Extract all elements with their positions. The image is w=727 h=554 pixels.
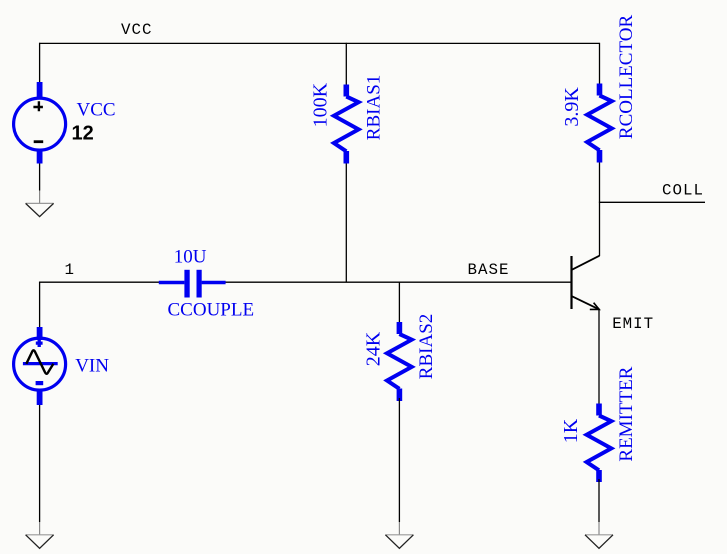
wire: rail to RBIAS1 xyxy=(345,43,347,88)
wire: left drop from rail to V1 xyxy=(39,43,41,92)
svg-text:24K: 24K xyxy=(363,331,385,366)
wire: COLL stub xyxy=(599,201,705,203)
V2 sine wave xyxy=(26,350,53,373)
voltage source V2 VIN xyxy=(14,327,66,405)
ground (below REMITTER) xyxy=(585,522,613,548)
wire: rail to RCOLLECTOR xyxy=(599,43,601,87)
svg-text:RBIAS1: RBIAS1 xyxy=(364,75,385,140)
svg-text:10U: 10U xyxy=(174,247,207,268)
svg-text:12: 12 xyxy=(72,123,94,145)
wire: top VCC rail xyxy=(39,42,599,44)
Q1 collector lead xyxy=(572,256,600,270)
wire: emitter to REMITTER xyxy=(598,309,600,407)
R2 name label RCOLLECTOR xyxy=(616,15,637,140)
R4 name label REMITTER xyxy=(616,366,637,461)
V1 minus mark xyxy=(34,140,44,143)
resistor R3 RBIAS2 xyxy=(387,322,412,401)
wire: V1 minus to ground xyxy=(39,158,41,191)
Q1 emitter lead xyxy=(572,296,599,309)
svg-text:VCC: VCC xyxy=(121,21,152,39)
wire: RBIAS1 to base wire xyxy=(345,160,347,282)
ground (below RBIAS2) xyxy=(385,522,413,548)
V2 plus mark xyxy=(36,339,43,347)
wire: RCOLLECTOR to collector xyxy=(599,159,601,256)
svg-text:1: 1 xyxy=(65,261,75,279)
R4 value label 1K xyxy=(560,418,582,443)
R3 value label 24K xyxy=(363,331,385,366)
V2 minus mark xyxy=(36,381,44,385)
svg-text:3.9K: 3.9K xyxy=(561,87,583,127)
wire: capacitor to base xyxy=(225,281,572,283)
wire: RBIAS2 to ground xyxy=(398,398,400,522)
wire: node1 drop to VIN xyxy=(39,282,41,334)
wire: base wire drop to RBIAS2 xyxy=(398,282,400,325)
svg-text:1K: 1K xyxy=(560,418,582,443)
R2 value label 3.9K xyxy=(561,87,583,127)
svg-text:VIN: VIN xyxy=(75,355,109,376)
capacitor C1 CCOUPLE xyxy=(159,270,226,298)
wire: REMITTER to ground xyxy=(598,479,600,522)
wire: VIN to ground xyxy=(39,398,41,522)
svg-text:BASE: BASE xyxy=(468,261,510,279)
ground (below V1) xyxy=(26,191,54,217)
wire: node1 to capacitor xyxy=(39,281,161,283)
ground (below VIN) xyxy=(26,522,54,548)
Q1 base bar xyxy=(570,256,572,309)
V1 plus mark xyxy=(33,101,43,111)
transistor Q1 xyxy=(572,256,600,310)
Q1 emitter arrowhead xyxy=(590,303,599,310)
svg-text:RBIAS2: RBIAS2 xyxy=(416,314,437,379)
resistor R2 RCOLLECTOR xyxy=(587,43,612,256)
R1 name label RBIAS1 xyxy=(364,75,385,140)
svg-text:EMIT: EMIT xyxy=(612,315,654,333)
svg-text:RCOLLECTOR: RCOLLECTOR xyxy=(616,15,637,140)
R1 value label 100K xyxy=(310,82,332,127)
resistor R1 RBIAS1 xyxy=(334,43,359,282)
svg-text:100K: 100K xyxy=(310,82,332,127)
V2 sine axis xyxy=(23,362,58,365)
svg-text:VCC: VCC xyxy=(77,99,116,120)
svg-text:COLL: COLL xyxy=(662,181,704,199)
svg-text:CCOUPLE: CCOUPLE xyxy=(168,299,255,320)
svg-text:REMITTER: REMITTER xyxy=(616,366,637,461)
voltage source V1 VCC xyxy=(14,82,66,164)
resistor R4 REMITTER xyxy=(587,404,612,483)
R3 name label RBIAS2 xyxy=(416,314,437,379)
